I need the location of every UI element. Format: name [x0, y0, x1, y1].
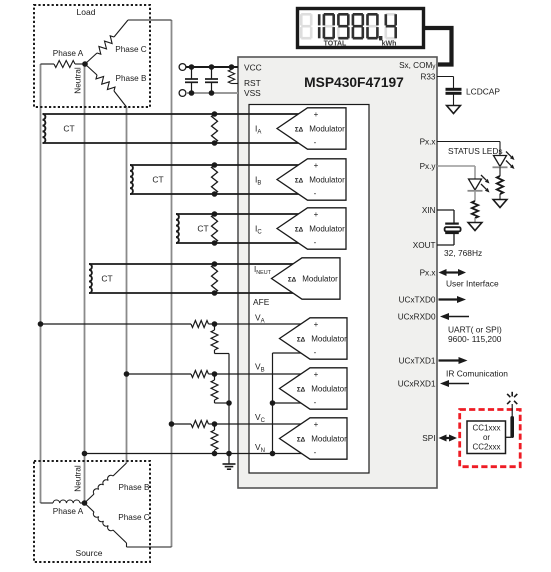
wire CT bottom [130, 193, 300, 195]
ground D2 [468, 223, 482, 231]
current transformer CT (130,179.5) [130, 165, 133, 194]
wire V_A to modulator [215, 323, 304, 325]
svg-text:RST: RST [244, 78, 261, 88]
svg-text:+: + [314, 320, 319, 329]
svg-text:ΣΔ: ΣΔ [295, 226, 304, 233]
resistor RST pullup [228, 70, 234, 84]
svg-text:Modulator: Modulator [311, 334, 347, 343]
svg-text:UART( or SPI): UART( or SPI) [448, 325, 502, 335]
svg-text:Neutral: Neutral [74, 465, 83, 492]
svg-text:ΣΔ: ΣΔ [297, 336, 306, 343]
svg-text:UCxRXD0: UCxRXD0 [398, 313, 436, 322]
node power rail junctions [189, 64, 195, 70]
svg-text:+: + [314, 110, 319, 119]
antenna radiation sparkle [511, 392, 513, 397]
wire Phase A bus [40, 64, 42, 503]
svg-text:ΣΔ: ΣΔ [297, 386, 306, 393]
svg-text:32, 768Hz: 32, 768Hz [444, 248, 482, 258]
wire CT top [43, 113, 301, 115]
RF module box (red dashed) [460, 410, 521, 467]
sigma-delta modulator I_C mod [277, 208, 346, 249]
sigma-delta modulator I_NEUT mod [272, 258, 341, 299]
arrow SPI [445, 437, 452, 439]
svg-text:CT: CT [63, 124, 74, 134]
resistor CT burden (278.5) [212, 264, 218, 293]
wire CC to antenna [506, 436, 512, 438]
svg-text:User Interface: User Interface [446, 279, 499, 289]
svg-text:CT: CT [197, 224, 208, 234]
svg-text:IR Comunication: IR Comunication [446, 369, 508, 379]
svg-text:MSP430F47197: MSP430F47197 [304, 75, 404, 90]
capacitor C2 [211, 67, 213, 79]
antenna [510, 416, 514, 438]
svg-text:Px.x: Px.x [420, 138, 436, 147]
current transformer CT (89,278.5) [89, 264, 92, 293]
node source star [82, 500, 88, 506]
wire Phase B bus [126, 107, 128, 463]
terminal VSS input [179, 90, 186, 97]
svg-text:CT: CT [101, 274, 112, 284]
load box [34, 5, 150, 107]
LED D1 [494, 156, 507, 167]
wire V_B to modulator [215, 373, 304, 375]
arrow TXD0 [439, 298, 460, 300]
resistor V_C series [191, 421, 209, 428]
svg-text:-: - [314, 138, 317, 147]
svg-text:-: - [314, 238, 317, 247]
svg-text:Modulator: Modulator [309, 224, 345, 233]
svg-text:Modulator: Modulator [302, 274, 338, 283]
resistor V_B shunt [214, 374, 216, 380]
svg-text:Source: Source [76, 548, 103, 558]
svg-text:Px.x: Px.x [420, 269, 436, 278]
wire V_C [172, 423, 192, 425]
wire Phase C bus top segment [171, 20, 173, 547]
wire CT bottom [176, 242, 300, 244]
svg-text:UCxRXD1: UCxRXD1 [398, 380, 436, 389]
wire common to V_N [228, 354, 230, 465]
svg-text:UCxTXD1: UCxTXD1 [399, 357, 436, 366]
LED D2 [469, 179, 482, 190]
svg-text:Modulator: Modulator [309, 124, 345, 133]
inductor Phase A (source) [41, 502, 54, 504]
wire VCC rail [186, 66, 238, 68]
arrow RXD0 [447, 316, 469, 318]
wire V_A [41, 323, 192, 325]
wire LCD to Sx,COMy (thick) [424, 28, 452, 65]
inductor Phase B (source) [85, 494, 95, 503]
svg-text:+: + [314, 370, 319, 379]
wire VSS rail [186, 92, 238, 94]
resistor CT burden (128.5) [212, 114, 218, 143]
svg-text:LCDCAP: LCDCAP [466, 87, 500, 97]
svg-text:VCC: VCC [244, 63, 262, 73]
resistor Phase A (load) [41, 63, 55, 65]
LCD digits 10980.4 [318, 14, 321, 25]
ground analog [223, 463, 236, 465]
wire CT top [89, 263, 300, 265]
svg-text:-: - [314, 398, 317, 407]
LED D2 emission arrows [481, 175, 486, 180]
resistor CT burden (228.5) [212, 214, 218, 243]
svg-text:Phase C: Phase C [118, 513, 149, 522]
svg-text:or: or [483, 433, 490, 442]
svg-text:Phase A: Phase A [53, 507, 84, 516]
wire XIN [437, 209, 454, 211]
wire V_C to modulator [215, 423, 304, 425]
svg-text:Phase C: Phase C [115, 45, 146, 54]
svg-text:AFE: AFE [253, 297, 270, 307]
resistor Phase C (load) [85, 53, 97, 64]
svg-text:Phase B: Phase B [119, 483, 150, 492]
MCU body U1 MSP430F47197 [238, 57, 437, 488]
svg-text:CT: CT [152, 175, 163, 185]
LCD ghost digit [301, 13, 311, 16]
sigma-delta modulator I_A mod [277, 108, 346, 149]
current transformer CT (42.5,128.5) [43, 114, 46, 143]
svg-text:TOTAL: TOTAL [324, 41, 347, 48]
ground LCDCAP [447, 106, 461, 114]
resistor R_D2 [474, 191, 476, 201]
sigma-delta modulator V_B mod [280, 368, 348, 409]
inductor Phase C (source) [85, 503, 95, 512]
svg-text:ΣΔ: ΣΔ [297, 436, 306, 443]
resistor V_C shunt [214, 424, 216, 430]
terminal VCC input [179, 64, 186, 71]
svg-text:Modulator: Modulator [309, 175, 345, 184]
wire Neutral bus [84, 64, 86, 503]
svg-text:+: + [314, 161, 319, 170]
wire R33 to LCDCAP [437, 76, 454, 78]
svg-text:9600- 115,200: 9600- 115,200 [448, 334, 502, 344]
svg-text:-: - [314, 189, 317, 198]
current transformer CT (176,228.5) [176, 214, 179, 243]
resistor V_A series [191, 321, 209, 328]
sigma-delta modulator V_A mod [280, 318, 348, 359]
wire CT top [130, 164, 300, 166]
svg-text:Load: Load [77, 7, 96, 17]
ground D1 [493, 200, 507, 208]
wire CT bottom [89, 292, 300, 294]
svg-text:R33: R33 [420, 73, 435, 82]
svg-text:Sx, COMy: Sx, COMy [399, 61, 436, 70]
capacitor LCDCAP [446, 88, 462, 91]
svg-text:CC2xxx: CC2xxx [472, 442, 500, 451]
svg-text:Phase A: Phase A [53, 49, 84, 58]
svg-text:SPI: SPI [422, 434, 435, 443]
resistor R_D1 [499, 167, 501, 176]
svg-text:-: - [314, 448, 317, 457]
resistor CT burden (179.5) [212, 165, 218, 194]
svg-text:XIN: XIN [422, 206, 436, 215]
resistor V_B series [191, 371, 209, 378]
resistor V_A shunt [214, 324, 216, 330]
svg-text:Neutral: Neutral [74, 67, 83, 94]
CC1xxx/CC2xxx box [467, 421, 506, 454]
wire V mod minus inputs [273, 352, 304, 354]
LED D1 emission arrows [506, 152, 511, 157]
svg-text:-: - [314, 348, 317, 357]
arrow user interface [445, 271, 461, 273]
arrow RXD1 [447, 383, 469, 385]
wire V_B [127, 373, 192, 375]
wire CT top [176, 213, 300, 215]
sigma-delta modulator V_C mod [280, 418, 348, 459]
svg-text:ΣΔ: ΣΔ [288, 276, 297, 283]
AFE inner box [249, 105, 369, 474]
wire Px.x to LED1 [437, 141, 500, 143]
svg-text:STATUS LEDs: STATUS LEDs [448, 146, 503, 156]
wire Px.y to LED2 [437, 165, 475, 167]
svg-text:Modulator: Modulator [311, 384, 347, 393]
svg-text:ΣΔ: ΣΔ [295, 126, 304, 133]
wire CT bottom [43, 142, 301, 144]
source box [34, 461, 150, 562]
svg-text:Px.y: Px.y [420, 162, 437, 171]
svg-text:+: + [314, 420, 319, 429]
wire V_N [85, 453, 304, 455]
arrow TXD1 [439, 359, 461, 361]
LCD display [298, 9, 424, 48]
crystal Y1 32768Hz [445, 223, 459, 225]
svg-text:kWh: kWh [382, 41, 397, 48]
capacitor C1 [191, 67, 193, 79]
node load star [82, 61, 88, 67]
svg-text:VSS: VSS [244, 88, 261, 98]
wire XOUT [453, 233, 455, 245]
sigma-delta modulator I_B mod [277, 159, 346, 200]
svg-text:UCxTXD0: UCxTXD0 [399, 296, 436, 305]
svg-text:Phase B: Phase B [116, 74, 147, 83]
svg-text:XOUT: XOUT [413, 241, 436, 250]
svg-text:+: + [314, 210, 319, 219]
svg-text:Modulator: Modulator [311, 434, 347, 443]
resistor Phase B (load) [85, 64, 97, 75]
svg-text:CC1xxx: CC1xxx [472, 424, 500, 433]
svg-text:ΣΔ: ΣΔ [295, 177, 304, 184]
